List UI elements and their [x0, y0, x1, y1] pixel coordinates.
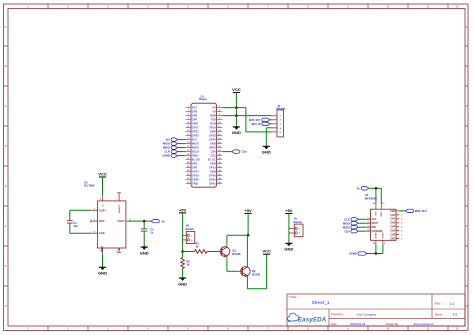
svg-text:SCLK: SCLK [192, 150, 199, 154]
ground (U3) [98, 267, 107, 275]
title block [287, 294, 465, 326]
wire R1 to Q1 base [207, 251, 218, 253]
junction 3v [375, 187, 378, 190]
svg-text:G: G [5, 264, 7, 268]
svg-text:Company:: Company: [331, 312, 344, 316]
net flag MOSI (U2) [343, 225, 366, 229]
connector H1 Source [289, 217, 303, 237]
svg-text:CS1: CS1 [211, 154, 217, 158]
power flag VCC (top) [232, 87, 241, 93]
transistor Q1 BC546 [218, 243, 242, 259]
connector H2 Switch [183, 224, 195, 244]
svg-text:15: 15 [382, 203, 384, 205]
svg-text:GP24: GP24 [209, 138, 216, 142]
svg-text:C: C [466, 104, 468, 108]
svg-text:CH1: CH1 [390, 214, 395, 217]
svg-text:GND: GND [210, 114, 216, 118]
svg-text:VOUT: VOUT [117, 219, 125, 223]
svg-text:GND: GND [192, 122, 198, 126]
svg-text:REV:: REV: [435, 302, 442, 306]
svg-text:C: C [5, 104, 7, 108]
junction collectors [247, 234, 250, 237]
svg-text:GP18: GP18 [209, 126, 216, 130]
svg-text:H: H [5, 304, 7, 308]
ground (below VCC rail) [232, 127, 241, 135]
net flag 3v (U2 supply) [357, 186, 369, 190]
wire J1 pin4 to ground [266, 127, 271, 129]
svg-text:CLK: CLK [344, 217, 349, 221]
svg-text:CH4: CH4 [390, 226, 395, 229]
svg-text:Sheet_1: Sheet_1 [312, 300, 330, 305]
svg-text:GP27: GP27 [192, 130, 199, 134]
svg-text:1.0: 1.0 [450, 302, 455, 306]
svg-text:3V3: 3V3 [192, 106, 197, 110]
svg-text:GP20: GP20 [209, 178, 216, 182]
svg-text:5: 5 [401, 226, 402, 228]
svg-text:DIN: DIN [372, 226, 376, 229]
svg-text:-5v: -5v [161, 219, 165, 223]
svg-text:CH3: CH3 [390, 222, 395, 225]
svg-text:GP6: GP6 [192, 166, 198, 170]
svg-text:GP16: GP16 [209, 174, 216, 178]
svg-text:H: H [466, 304, 468, 308]
svg-text:GND: GND [140, 250, 149, 255]
svg-text:6: 6 [401, 230, 402, 232]
svg-text:Q1: Q1 [232, 249, 236, 253]
svg-text:MOSI: MOSI [343, 225, 350, 229]
svg-text:AGND: AGND [375, 232, 378, 238]
net flag MUX_IN (J1 pin3) [252, 122, 272, 126]
svg-text:16: 16 [373, 203, 375, 205]
svg-text:7: 7 [401, 234, 402, 236]
net flag CLK (U2) [344, 217, 366, 221]
svg-text:VDD: VDD [376, 211, 378, 216]
svg-text:B: B [5, 64, 7, 68]
svg-text:CLK: CLK [164, 150, 169, 154]
svg-text:MOSI: MOSI [192, 142, 199, 146]
junction VCC/GND row [235, 114, 238, 117]
svg-text:CS0: CS0 [211, 150, 217, 154]
svg-text:CSn: CSn [241, 150, 247, 154]
wire U1 pin6 GND to J1 pin1 [222, 115, 271, 117]
svg-text:1/1: 1/1 [453, 313, 458, 317]
wire 3v to VDD/VREF [369, 187, 382, 189]
svg-text:13: 13 [367, 218, 369, 220]
svg-text:arsonmarianus: arsonmarianus [414, 322, 434, 326]
svg-text:A: A [5, 25, 7, 29]
svg-text:BOOST: BOOST [119, 204, 121, 212]
svg-text:MISO: MISO [343, 221, 350, 225]
svg-text:CH2: CH2 [390, 218, 395, 221]
svg-text:DOUT: DOUT [372, 222, 379, 225]
resistor R2 1k [181, 252, 190, 279]
ground (H1) [284, 243, 293, 251]
svg-text:BC546: BC546 [232, 252, 241, 256]
svg-text:GP17: GP17 [192, 126, 199, 130]
svg-text:CH6: CH6 [390, 234, 395, 237]
wire Q1 emitter to Q2 base [226, 260, 228, 272]
wire Q2 emitter to VCC [246, 280, 248, 289]
power flag VCC (emitter) [262, 249, 271, 255]
svg-text:3V3: 3V3 [192, 138, 197, 142]
svg-text:MUX_OUT: MUX_OUT [249, 120, 261, 122]
svg-text:OSC: OSC [99, 219, 105, 223]
svg-text:ICL7660: ICL7660 [84, 184, 95, 188]
svg-text:Sheet:: Sheet: [435, 312, 443, 316]
ground (C2) [140, 247, 149, 255]
svg-text:10: 10 [367, 230, 369, 232]
ground (R2) [178, 278, 187, 286]
svg-text:G: G [466, 264, 468, 268]
svg-text:GP5: GP5 [192, 162, 198, 166]
svg-text:Module: Module [276, 107, 286, 111]
net flag CSn (U1 pin24) [222, 150, 247, 154]
svg-text:+5V: +5V [244, 208, 252, 213]
svg-text:9: 9 [384, 243, 385, 245]
IC U2 MCP3008 [365, 193, 403, 245]
power flag +5V (H2) [179, 207, 187, 213]
svg-text:MISO: MISO [192, 146, 199, 150]
svg-text:MISO: MISO [163, 146, 170, 150]
svg-text:D: D [466, 144, 468, 148]
svg-text:5V: 5V [213, 110, 216, 114]
svg-text:+5V: +5V [285, 208, 293, 213]
net flag 3v3 (U1 left) [165, 138, 185, 142]
svg-text:EasyEDA: EasyEDA [298, 317, 327, 324]
capacitor C2 1u [141, 221, 154, 247]
svg-text:GND: GND [262, 150, 271, 155]
transistor Q2 BC546 [238, 263, 261, 279]
svg-text:Drawn By:: Drawn By: [386, 322, 399, 326]
svg-text:10u: 10u [73, 224, 78, 228]
svg-text:CLK: CLK [372, 218, 377, 221]
svg-text:E: E [466, 184, 468, 188]
svg-text:3: 3 [401, 218, 402, 220]
net flag CSn (U2) [344, 229, 366, 233]
svg-text:CAP+: CAP+ [99, 208, 106, 212]
svg-text:VREF: VREF [381, 211, 383, 217]
svg-text:VCC: VCC [262, 249, 271, 254]
svg-text:GND: GND [192, 182, 198, 186]
svg-text:+5V: +5V [179, 207, 187, 212]
net flag MISO (U1 left) [163, 146, 185, 150]
svg-text:8: 8 [401, 238, 402, 240]
junction AGND [375, 252, 378, 255]
svg-text:Date:: Date: [331, 322, 338, 326]
net flag MUX_OUT (U2 CH0) [399, 209, 427, 213]
wire +5V down to collector junction [247, 213, 249, 235]
svg-text:GND: GND [210, 170, 216, 174]
resistor R1 1k [194, 242, 207, 254]
svg-text:CH7: CH7 [390, 238, 395, 241]
wire CAP+ to C1 [70, 209, 91, 211]
svg-text:GND: GND [210, 130, 216, 134]
connector U1 Raspi [186, 94, 223, 187]
svg-text:GND: GND [178, 281, 187, 286]
svg-text:GP13: GP13 [192, 170, 199, 174]
net flag MISO (U2) [343, 221, 366, 225]
svg-text:GP21: GP21 [209, 182, 216, 186]
svg-text:RXD: RXD [210, 122, 216, 126]
svg-text:MUX_OUT: MUX_OUT [415, 210, 427, 213]
svg-text:GP23: GP23 [209, 134, 216, 138]
svg-text:GP25: GP25 [209, 146, 216, 150]
svg-text:MUX_IN: MUX_IN [252, 124, 261, 126]
svg-text:GND: GND [284, 247, 293, 252]
svg-text:ID_SC: ID_SC [208, 158, 216, 162]
junction VOUT [143, 220, 146, 223]
svg-text:VCC: VCC [98, 171, 107, 176]
svg-text:5V: 5V [213, 106, 216, 110]
net flag -5v [151, 219, 165, 223]
wire U3 VOUT [129, 220, 152, 222]
wire U1 pin2 5V to J1 pin5 [222, 107, 246, 109]
svg-text:Raspi: Raspi [199, 97, 207, 101]
connector J1 Module [272, 104, 287, 137]
net flag AGND (U1 left) [162, 154, 185, 158]
svg-text:12: 12 [367, 222, 369, 224]
wire C1 to CAP- [69, 223, 71, 233]
wire junction to R1 [183, 251, 195, 253]
svg-text:GP22: GP22 [192, 134, 199, 138]
svg-text:2: 2 [401, 214, 402, 216]
svg-text:2020-09-23: 2020-09-23 [350, 322, 366, 326]
ground (J1) [262, 146, 271, 154]
net flag MUX_OUT (J1 pin2) [249, 118, 271, 122]
junction base node [181, 250, 184, 253]
svg-text:CSn: CSn [344, 229, 350, 233]
wire +5V through H1 to ground [288, 213, 290, 243]
net flag AGND (U2) [349, 252, 367, 256]
svg-text:11: 11 [367, 226, 369, 228]
svg-text:MOSI: MOSI [163, 142, 170, 146]
net flag CLK (U1 left) [164, 150, 185, 154]
svg-text:AGND: AGND [349, 252, 357, 256]
svg-text:GP19: GP19 [192, 174, 199, 178]
svg-text:ID_SD: ID_SD [192, 158, 200, 162]
svg-text:3v3: 3v3 [165, 138, 170, 142]
power flag VCC (U3) [98, 171, 107, 177]
junction VCC/5V [235, 106, 238, 109]
svg-text:B: B [466, 64, 468, 68]
svg-text:Your Company: Your Company [357, 312, 377, 316]
svg-text:GND: GND [210, 142, 216, 146]
svg-text:TITLE:: TITLE: [289, 295, 297, 299]
svg-text:CAP-: CAP- [99, 231, 105, 235]
svg-text:A: A [466, 25, 468, 29]
wire AGND net [375, 244, 377, 253]
svg-text:D: D [5, 144, 7, 148]
capacitor C1 10u [67, 221, 78, 229]
svg-text:Q2: Q2 [252, 269, 256, 273]
svg-text:AGND: AGND [162, 154, 170, 158]
svg-text:GP2: GP2 [192, 110, 198, 114]
svg-text:GND: GND [192, 154, 198, 158]
svg-text:MCP3008: MCP3008 [365, 197, 377, 201]
wire +5V to H2 and down [182, 213, 184, 252]
svg-text:GP3: GP3 [192, 114, 198, 118]
svg-text:CH0: CH0 [390, 210, 395, 213]
svg-text:GND: GND [210, 162, 216, 166]
svg-text:DGND: DGND [383, 232, 385, 238]
power flag +5V (H1) [285, 208, 293, 214]
svg-text:Switch: Switch [185, 227, 194, 231]
svg-text:1u: 1u [150, 231, 153, 235]
svg-text:VCC: VCC [232, 87, 241, 92]
svg-text:LV: LV [118, 247, 121, 250]
net flag MOSI (U1 left) [163, 142, 185, 146]
svg-text:BC546: BC546 [252, 272, 261, 276]
svg-text:GND: GND [100, 246, 104, 252]
svg-text:GP26: GP26 [192, 178, 199, 182]
svg-text:GP12: GP12 [209, 166, 216, 170]
svg-text:CH5: CH5 [390, 230, 395, 233]
svg-text:E: E [5, 184, 7, 188]
op-amp/IC U3 ICL7660 [84, 180, 131, 253]
svg-text:TXD: TXD [210, 118, 215, 122]
EasyEDA logo [288, 313, 327, 323]
wire VCC to U3 pin8 [102, 177, 104, 195]
power flag +5V (Q1/Q2) [244, 208, 252, 214]
svg-text:Source: Source [293, 220, 302, 224]
wire VCC stem [235, 93, 237, 127]
wire Q1 collector to +5V node [226, 235, 228, 243]
wire Q2 collector up [246, 235, 248, 263]
svg-text:GND: GND [232, 130, 241, 135]
wire U3 pin3 to ground [102, 253, 104, 267]
svg-text:GP4: GP4 [192, 118, 198, 122]
svg-text:GND: GND [98, 271, 107, 276]
